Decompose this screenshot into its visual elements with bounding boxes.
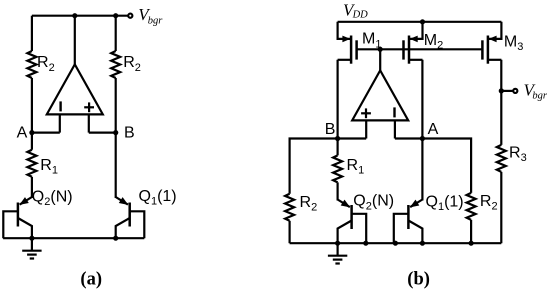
- junction: (a) Q1 collector on bottom rail: [113, 236, 118, 241]
- wire: (a) right branch from rail to R2: [115, 16, 117, 51]
- svg-text:R1: R1: [40, 157, 58, 177]
- svg-text:Q1(1): Q1(1): [426, 193, 464, 213]
- svg-text:R1: R1: [347, 157, 365, 177]
- wire: (b) V_bgr tap to terminal: [501, 90, 512, 92]
- PMOS M2 source arrowhead (PMOS): [410, 36, 418, 43]
- transistor Q1(1) (b) base bar: [407, 205, 410, 229]
- ground symbol (a) bar 2: [27, 254, 37, 256]
- node A (b): junction dot: [420, 136, 425, 141]
- PMOS M1 source arrowhead (PMOS): [342, 36, 350, 43]
- svg-text:A: A: [17, 125, 28, 142]
- node A (a): junction dot: [29, 130, 34, 135]
- ground symbol (a) bar 3: [30, 257, 34, 259]
- resistor R2 (b, right): [467, 193, 476, 220]
- wire: (b) left R2 to bottom rail: [289, 221, 291, 243]
- svg-text:Q2(N): Q2(N): [353, 193, 394, 213]
- wire: (a) right branch R2 to node B to Q1 emitter: [115, 78, 117, 198]
- transistor Q1(1) (b) emitter arrowhead: [410, 200, 420, 208]
- resistor R2 (b, left): [285, 194, 294, 221]
- wire: (b) node B to non-inverting input: [338, 137, 367, 139]
- terminal: (b) V_bgr output terminal: [513, 89, 517, 93]
- wire: (b) bottom rail: [290, 242, 502, 244]
- PMOS M2 source lead: [409, 22, 423, 39]
- wire: (a) non-inverting input to node B: [89, 132, 116, 134]
- svg-text:R2: R2: [300, 194, 318, 214]
- ground symbol (a) bar 1: [22, 250, 41, 252]
- PMOS M2 channel bar: [408, 36, 411, 64]
- PMOS M2 drain lead: [409, 59, 423, 61]
- junction: (a) right R2 branch to top rail: [113, 13, 118, 18]
- wire: (a) op-amp non-inverting input stub: [88, 114, 90, 132]
- wire: (b) R1 to Q2 emitter: [337, 182, 339, 200]
- PMOS M1 source lead: [338, 22, 352, 39]
- wire: (a) node A to inverting input: [32, 132, 60, 134]
- transistor Q2(N) (a) collector lead: [18, 218, 32, 238]
- wire: (b) shared gate line M1-M2-M3: [357, 48, 482, 50]
- transistor Q2(N) (b) base bar: [350, 205, 353, 229]
- svg-text:R2: R2: [480, 193, 498, 213]
- svg-text:DD: DD: [352, 10, 369, 21]
- svg-text:R3: R3: [509, 145, 527, 165]
- svg-text:B: B: [325, 121, 336, 138]
- transistor Q2(N) (a) base lead: [3, 211, 18, 238]
- transistor Q2(N) (a) base bar: [17, 203, 20, 227]
- transistor Q2(N) (b) base lead: [352, 214, 367, 243]
- svg-text:(a): (a): [80, 270, 102, 290]
- op-amp U1 (b) inverting input label (-): [393, 107, 395, 117]
- junction: (a) op-amp output to top rail: [72, 13, 77, 18]
- op-amp U1 (b) non-inverting input label (+): [361, 112, 371, 114]
- wire: (b) M3 drain through V_bgr node to R3: [500, 60, 502, 145]
- resistor R2 (a, left): [27, 51, 36, 78]
- wire: (b) V_DD top rail: [338, 21, 502, 23]
- svg-text:Q1(1): Q1(1): [139, 188, 177, 208]
- wire: (b) op-amp non-inverting input stub: [365, 120, 367, 138]
- svg-text:R2: R2: [123, 54, 141, 74]
- wire: (a) left branch R2 to node A to R1: [31, 78, 33, 150]
- wire: (b) node B to left R2: [290, 139, 338, 194]
- transistor Q1(1) (a) emitter lead: [116, 197, 128, 205]
- op-amp U1 (b) body (triangle): [352, 70, 408, 120]
- wire: (b) inverting input to node A: [395, 137, 423, 139]
- ground symbol (b) stub: [337, 243, 339, 255]
- PMOS M1 gate bar: [355, 40, 358, 59]
- PMOS M3 channel bar: [487, 36, 490, 64]
- transistor Q1(1) (a) base bar: [128, 203, 131, 227]
- ground symbol (a) stub: [31, 238, 33, 250]
- transistor Q2(N) (b) emitter arrowhead: [341, 200, 351, 208]
- resistor R1 (b): [333, 155, 342, 182]
- PMOS M3 drain lead: [488, 59, 502, 61]
- wire: (b) op-amp output to gate line: [379, 49, 381, 71]
- wire: (a) op-amp output to top rail: [74, 16, 76, 65]
- wire: (b) op-amp inverting input stub: [394, 120, 396, 138]
- resistor R1 (a): [27, 150, 36, 177]
- PMOS M1 channel bar: [350, 36, 353, 64]
- junction: (b) Q2 collector / ground on bottom rail: [335, 241, 340, 246]
- transistor Q1(1) (b) base lead: [394, 214, 409, 243]
- node B (b): junction dot: [335, 136, 340, 141]
- wire: (b) right R2 to bottom rail: [470, 220, 472, 243]
- svg-text:A: A: [428, 121, 439, 138]
- svg-text:Q2(N): Q2(N): [32, 188, 73, 208]
- ground symbol (b) bar 3: [335, 262, 339, 264]
- resistor R3 (b): [497, 145, 506, 172]
- wire: (a) left branch from rail to R2: [31, 16, 33, 51]
- PMOS M2 gate bar: [402, 40, 405, 59]
- junction: (a) Q2 collector / ground on bottom rail: [29, 236, 34, 241]
- junction: (b) right R2 on bottom rail: [469, 241, 474, 246]
- op-amp U1 (a) non-inverting input label (+): [84, 106, 94, 108]
- transistor Q1(1) (a) base lead: [130, 211, 145, 238]
- ground symbol (b) bar 2: [333, 259, 343, 261]
- resistor R2 (a, right): [111, 51, 120, 78]
- transistor Q2(N) (b) collector lead: [338, 221, 352, 244]
- wire: (b) M1 drain to node B to R1: [337, 60, 339, 156]
- wire: (a) bottom rail: [3, 237, 144, 239]
- node B (a): junction dot: [113, 130, 118, 135]
- PMOS M3 source arrowhead (PMOS): [489, 36, 497, 43]
- transistor Q1(1) (b) emitter lead: [410, 200, 422, 208]
- junction: (b) V_bgr tap: [499, 88, 504, 93]
- svg-text:R2: R2: [37, 54, 55, 74]
- transistor Q1(1) (a) emitter arrowhead: [119, 197, 129, 205]
- op-amp U1 (a) inverting input label (-): [59, 101, 61, 111]
- PMOS M3 gate bar: [481, 40, 484, 59]
- transistor Q2(N) (b) emitter lead: [338, 200, 350, 208]
- junction: (b) op-amp output to gate line: [378, 47, 383, 52]
- transistor Q2(N) (a) emitter lead: [20, 197, 32, 205]
- junction: (b) Q2 base on bottom rail: [363, 241, 368, 246]
- ground symbol (b) bar 1: [328, 255, 347, 257]
- svg-text:M3: M3: [504, 34, 523, 54]
- junction: (b) Q1 collector on bottom rail: [420, 241, 425, 246]
- terminal: (a) V_bgr output terminal: [128, 14, 132, 18]
- op-amp U1 (a) body (triangle): [47, 64, 103, 114]
- wire: (a) op-amp inverting input stub: [59, 114, 61, 132]
- svg-text:bgr: bgr: [532, 91, 548, 102]
- wire: (b) M2 drain to node A to Q1 emitter: [421, 60, 423, 201]
- wire: (a) R1 to Q2 emitter: [31, 177, 33, 198]
- PMOS M3 source lead: [488, 22, 502, 39]
- junction: (b) M2 source to top rail: [420, 19, 425, 24]
- transistor Q1(1) (a) collector lead: [116, 218, 130, 238]
- junction: (b) Q1 base on bottom rail: [393, 241, 398, 246]
- transistor Q1(1) (b) collector lead: [408, 221, 422, 244]
- svg-text:(b): (b): [407, 270, 430, 290]
- wire: (b) node A to right R2: [422, 139, 471, 193]
- wire: (a) top rail (op-amp output / V_bgr net): [32, 15, 128, 17]
- svg-text:bgr: bgr: [148, 15, 164, 26]
- svg-text:B: B: [124, 125, 135, 142]
- wire: (b) R3 to bottom rail: [500, 172, 502, 243]
- transistor Q2(N) (a) emitter arrowhead: [19, 197, 29, 205]
- PMOS M1 drain lead: [338, 59, 352, 61]
